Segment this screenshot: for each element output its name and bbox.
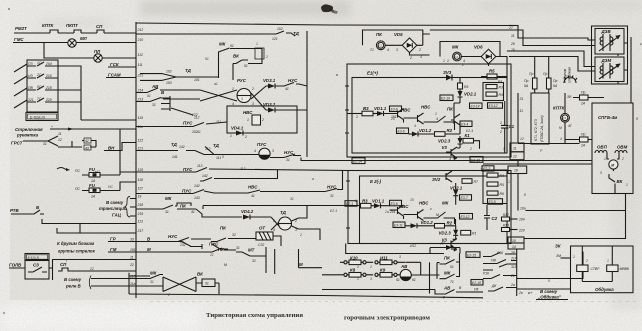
- svg-text:V3: V3: [442, 145, 448, 150]
- svg-text:117: 117: [138, 187, 144, 191]
- transformer box DZV: [592, 26, 628, 84]
- svg-text:Е2-1: Е2-1: [330, 209, 337, 213]
- contact PUS changeover left: [136, 190, 214, 194]
- svg-text:НВС: НВС: [421, 105, 431, 110]
- svg-text:М: М: [147, 247, 151, 252]
- svg-text:Р1К: Р1К: [483, 272, 490, 276]
- svg-text:4: 4: [232, 102, 234, 106]
- svg-text:ТД: ТД: [171, 142, 178, 147]
- svg-text:121: 121: [138, 147, 144, 151]
- unit E1(+) outer box: [347, 64, 511, 157]
- svg-text:Е2-1б: Е2-1б: [472, 281, 481, 285]
- svg-text:К9: К9: [380, 268, 386, 273]
- svg-text:10а: 10а: [520, 207, 526, 211]
- svg-text:ТД: ТД: [293, 31, 300, 36]
- svg-text:Е 2(-): Е 2(-): [370, 179, 382, 184]
- svg-text:R2: R2: [447, 221, 453, 226]
- wire AV row 214: [136, 88, 200, 93]
- svg-text:VD2.1: VD2.1: [464, 92, 477, 97]
- node ladder output: [58, 66, 81, 120]
- svg-text:121: 121: [28, 98, 34, 102]
- svg-text:311: 311: [511, 265, 517, 269]
- svg-text:ТД: ТД: [213, 143, 220, 148]
- svg-text:2-3: 2-3: [561, 116, 566, 120]
- wire long 289: [322, 290, 440, 295]
- label E3-7 (E2): [460, 195, 472, 201]
- relay RUS (polarized): [200, 90, 237, 101]
- relay coil NVS with diode VD4.1: [227, 106, 297, 133]
- wire GOLV: [9, 267, 53, 269]
- unit E2(-) outer box: [348, 171, 511, 244]
- wire riser 115: [119, 129, 121, 172]
- wire to lamp PL: [44, 43, 136, 59]
- resistor R3 (E2): [361, 203, 372, 208]
- bell arc: [564, 77, 576, 83]
- svg-text:3: 3: [252, 102, 254, 106]
- svg-text:19: 19: [138, 195, 142, 199]
- svg-text:4: 4: [414, 124, 416, 128]
- label E-61(I,II) lower: [25, 254, 49, 261]
- svg-text:АВ: АВ: [400, 264, 408, 269]
- svg-text:Е3-12: Е3-12: [461, 215, 470, 219]
- svg-text:НВС: НВС: [243, 110, 253, 115]
- svg-text:R4: R4: [499, 93, 503, 97]
- svg-text:31: 31: [152, 103, 156, 107]
- label E3-11 (E2): [393, 222, 405, 228]
- svg-text:Е2-15: Е2-15: [467, 253, 476, 257]
- contact cluster V M group: [136, 248, 266, 256]
- svg-text:4: 4: [560, 137, 562, 141]
- unit E2 inner box: [360, 176, 508, 244]
- svg-text:м+: м+: [528, 291, 532, 295]
- box MK VD6: [440, 42, 500, 57]
- svg-text:трансляции: трансляции: [99, 206, 127, 211]
- svg-text:2а: 2а: [384, 210, 389, 214]
- contact PKPT: [74, 30, 81, 33]
- svg-text:10: 10: [512, 239, 516, 243]
- svg-text:Е-61(I,II): Е-61(I,II): [30, 115, 46, 119]
- svg-text:11: 11: [58, 132, 62, 136]
- svg-text:К другим блокам: К другим блокам: [57, 241, 95, 246]
- svg-text:ГМ: ГМ: [110, 247, 117, 252]
- svg-text:ГР: ГР: [110, 237, 116, 242]
- svg-text:21: 21: [209, 253, 214, 257]
- svg-text:219: 219: [137, 212, 144, 216]
- hold loop row C with NUS contacts: [214, 171, 343, 194]
- wire RTV V: [11, 210, 44, 214]
- resistor R1 (E2): [461, 230, 471, 235]
- svg-text:ТД: ТД: [280, 210, 287, 215]
- svg-text:ГАЦ: ГАЦ: [112, 213, 122, 218]
- svg-text:R3: R3: [362, 199, 368, 204]
- svg-text:113: 113: [138, 220, 144, 224]
- svg-text:41: 41: [251, 194, 255, 198]
- wire E2-1 long: [203, 206, 346, 210]
- svg-text:51: 51: [147, 94, 151, 98]
- motor M: [609, 160, 618, 169]
- svg-text:МК: МК: [150, 271, 157, 276]
- svg-text:51: 51: [205, 57, 209, 61]
- svg-text:К13: К13: [503, 224, 509, 228]
- svg-text:14: 14: [512, 245, 516, 249]
- wire to VD4.2: [196, 209, 242, 217]
- wire riser to bottom bus: [429, 262, 431, 293]
- wire 10a long: [526, 194, 626, 211]
- svg-text:VD2.3: VD2.3: [438, 139, 451, 144]
- svg-text:ЗК: ЗК: [555, 244, 561, 249]
- svg-text:1: 1: [363, 107, 365, 111]
- wire 11a to relay V: [91, 285, 136, 287]
- wire from VK down: [614, 186, 616, 194]
- svg-text:Пр: Пр: [543, 72, 547, 76]
- svg-text:ПС: ПС: [75, 169, 80, 173]
- svg-text:51: 51: [450, 265, 454, 269]
- svg-text:Тиристорная схема управления: Тиристорная схема управления: [206, 312, 303, 319]
- wire GR: [108, 241, 152, 243]
- capacitor C2: [484, 205, 490, 230]
- ladder row 1: [14, 62, 58, 72]
- wire top second: [430, 30, 595, 46]
- svg-text:143: 143: [194, 196, 200, 200]
- svg-text:Е2-4: Е2-4: [466, 129, 473, 133]
- svg-text:РМ2Т: РМ2Т: [15, 26, 27, 31]
- svg-text:7С: 7С: [37, 97, 42, 101]
- svg-text:218: 218: [137, 203, 144, 207]
- svg-text:41: 41: [197, 130, 201, 134]
- wire cluster to Obduvka: [517, 252, 583, 279]
- svg-text:ПВ: ПВ: [491, 259, 496, 263]
- svg-text:МК: МК: [452, 45, 459, 50]
- label E3-5: [488, 199, 503, 205]
- svg-text:11: 11: [511, 34, 515, 38]
- svg-text:ОВМ: ОВМ: [617, 145, 628, 150]
- wire 220 long: [524, 211, 626, 239]
- svg-text:1: 1: [573, 255, 575, 259]
- diode VD1.1 (E2): [371, 205, 374, 207]
- svg-text:217: 217: [137, 229, 144, 233]
- svg-text:5А: 5А: [553, 84, 558, 88]
- svg-text:2: 2: [621, 157, 624, 161]
- svg-text:1: 1: [230, 134, 232, 138]
- contact VT MT group: [152, 242, 228, 250]
- svg-text:Е3-12: Е3-12: [489, 104, 498, 108]
- svg-text:ВК: ВК: [197, 272, 203, 277]
- svg-text:Е3-9: Е3-9: [391, 202, 398, 206]
- svg-text:3: 3: [399, 255, 401, 259]
- svg-text:1: 1: [256, 42, 258, 46]
- svg-text:11а: 11а: [130, 282, 136, 286]
- label E2-1: [345, 201, 357, 207]
- svg-text:1: 1: [447, 59, 449, 63]
- svg-text:ПК: ПК: [447, 107, 453, 112]
- svg-text:НВС: НВС: [401, 108, 411, 113]
- svg-text:ПК: ПК: [220, 226, 226, 231]
- svg-text:М: М: [611, 164, 614, 168]
- svg-text:20: 20: [390, 117, 395, 121]
- resistor R7 (E2): [462, 179, 472, 184]
- svg-text:113: 113: [197, 164, 203, 168]
- resistor R5: [487, 74, 497, 79]
- svg-text:2: 2: [167, 293, 170, 297]
- resistor R2 (E1): [435, 132, 446, 137]
- svg-text:VD2.3: VD2.3: [439, 231, 452, 236]
- svg-text:31: 31: [290, 197, 294, 201]
- svg-text:204: 204: [45, 62, 52, 66]
- svg-text:120: 120: [138, 168, 144, 172]
- svg-text:АВ: АВ: [443, 286, 451, 291]
- svg-text:R1: R1: [472, 232, 476, 236]
- svg-text:Е3-6: Е3-6: [398, 130, 405, 134]
- svg-text:В схему: В схему: [540, 289, 558, 294]
- svg-text:ПУС: ПУС: [182, 189, 192, 194]
- resistor R4: [487, 173, 498, 177]
- svg-text:R2: R2: [447, 128, 453, 133]
- bottom contact row NUS PUS PK OT: [136, 238, 256, 242]
- svg-text:Пр: Пр: [529, 72, 533, 76]
- svg-text:СТВР: СТВР: [591, 267, 601, 271]
- svg-text:1: 1: [604, 157, 606, 161]
- contact VK bypass: [233, 60, 248, 80]
- label E2-16: [471, 280, 483, 286]
- svg-text:Е3-7: Е3-7: [461, 196, 468, 200]
- misc pin labels: [147, 42, 642, 281]
- svg-text:3: 3: [396, 48, 398, 52]
- wire top bus 21: [136, 23, 595, 40]
- svg-text:ПУС: ПУС: [183, 121, 193, 126]
- svg-text:„Обдувка": „Обдувка": [537, 295, 562, 300]
- svg-text:VD1.2: VD1.2: [421, 220, 434, 225]
- svg-text:ЗV3: ЗV3: [443, 70, 452, 75]
- svg-text:Е3-16: Е3-16: [471, 158, 480, 162]
- svg-text:рукоятка: рукоятка: [16, 133, 39, 138]
- svg-text:4: 4: [254, 149, 256, 153]
- svg-text:31: 31: [286, 158, 290, 162]
- wire right outer: [630, 37, 632, 103]
- svg-text:4: 4: [273, 228, 275, 232]
- svg-text:3: 3: [370, 277, 372, 281]
- svg-text:VD1.2: VD1.2: [419, 128, 432, 133]
- svg-text:Е2-14: Е2-14: [353, 160, 362, 164]
- svg-text:2: 2: [469, 147, 472, 151]
- wire 18 to DZM: [509, 57, 595, 72]
- svg-text:142: 142: [202, 174, 208, 178]
- terminal bus K1 (vertical): [135, 22, 137, 298]
- svg-text:31: 31: [43, 142, 47, 146]
- svg-text:2а: 2а: [510, 283, 515, 287]
- diode VD1.1 (E1): [373, 113, 377, 115]
- svg-text:МТ: МТ: [248, 248, 255, 253]
- svg-text:2: 2: [409, 56, 412, 60]
- fuse Pr 5A right: [547, 78, 552, 89]
- scan residue line: [150, 301, 638, 303]
- wire ZM top: [561, 257, 571, 259]
- resistor R2 (E2): [435, 224, 445, 229]
- svg-text:СЗ: СЗ: [33, 263, 39, 268]
- svg-text:102: 102: [277, 27, 283, 31]
- svg-text:2: 2: [499, 130, 502, 134]
- vertical joining PK MK: [437, 253, 460, 278]
- wire GSAM: [106, 77, 136, 79]
- svg-text:103: 103: [166, 81, 172, 85]
- crossing X wires: [163, 277, 196, 292]
- svg-text:НУС: НУС: [288, 78, 298, 83]
- long bottom bus wire: [129, 294, 483, 298]
- svg-text:МК: МК: [442, 201, 449, 206]
- svg-text:61: 61: [412, 278, 416, 282]
- svg-text:VD4.1: VD4.1: [231, 126, 244, 131]
- svg-text:МК: МК: [219, 42, 226, 47]
- fuse Pr 2A upper: [580, 95, 589, 100]
- svg-text:32: 32: [232, 233, 236, 237]
- resistor R1 (E1): [463, 138, 474, 143]
- label E3-14: [470, 103, 483, 109]
- svg-text:ПУС: ПУС: [183, 167, 193, 172]
- box Obduvka: [571, 246, 634, 293]
- wire TD right to E2 input: [299, 206, 321, 241]
- svg-text:112: 112: [194, 116, 200, 120]
- diode D1: [430, 248, 460, 254]
- box PK VD5: [363, 30, 423, 45]
- contact PUS hold row: [136, 168, 350, 173]
- fuse Pr 2A lower: [580, 137, 589, 142]
- resistor R5: [487, 182, 498, 186]
- svg-text:VD1.1: VD1.1: [374, 106, 387, 111]
- wire E2 input: [322, 205, 360, 207]
- svg-text:КПТК: КПТК: [42, 23, 54, 28]
- svg-text:НУС: НУС: [168, 234, 178, 239]
- svg-text:Е3-14: Е3-14: [471, 105, 480, 109]
- relay coil STVR: [577, 265, 588, 272]
- svg-text:2: 2: [251, 87, 254, 91]
- svg-text:стрелкам: стрелкам: [568, 66, 572, 83]
- svg-text:2в: 2в: [518, 291, 523, 295]
- svg-text:К8: К8: [350, 268, 356, 273]
- contact PUS mid: [136, 122, 227, 127]
- svg-text:5: 5: [222, 155, 224, 159]
- svg-text:212: 212: [137, 28, 144, 32]
- svg-text:VD1.1: VD1.1: [372, 199, 385, 204]
- svg-text:ВК: ВК: [233, 54, 239, 59]
- wire row 212 continuation: [136, 33, 276, 35]
- lamp ML: [68, 39, 76, 47]
- wire E2 bottom to resistor chain: [346, 244, 444, 254]
- svg-text:111: 111: [216, 120, 221, 124]
- svg-text:КПТК: КПТК: [553, 106, 565, 111]
- svg-text:2: 2: [265, 55, 268, 59]
- svg-text:113: 113: [240, 167, 246, 171]
- svg-text:11: 11: [513, 147, 517, 151]
- svg-text:НС: НС: [95, 170, 100, 174]
- svg-text:а1: а1: [214, 82, 218, 86]
- box SPGB-4m: [592, 103, 633, 194]
- speckle marks: [8, 8, 10, 10]
- arrow wire 11: [50, 128, 136, 130]
- svg-text:СПГБ-4м: СПГБ-4м: [598, 115, 618, 120]
- svg-text:2: 2: [479, 168, 482, 172]
- svg-text:VD3.1: VD3.1: [263, 78, 276, 83]
- svg-text:141: 141: [172, 155, 178, 159]
- svg-text:3: 3: [241, 97, 243, 101]
- svg-text:VD6: VD6: [474, 45, 483, 50]
- diode VD1.2 (E2): [405, 225, 411, 227]
- wire vertical 518: [517, 93, 519, 143]
- svg-text:1: 1: [273, 219, 275, 223]
- svg-text:122: 122: [138, 139, 144, 143]
- diode VD1.2 (E1): [409, 133, 413, 135]
- svg-text:В схему: В схему: [106, 200, 124, 205]
- component box small: [255, 48, 264, 59]
- svg-text:2: 2: [244, 135, 247, 139]
- svg-text:4: 4: [449, 157, 451, 161]
- connector B stubs: [161, 96, 170, 111]
- svg-text:М: М: [299, 262, 303, 267]
- svg-text:И12: И12: [410, 244, 416, 248]
- svg-text:1: 1: [508, 180, 510, 184]
- svg-text:Е3-11: Е3-11: [394, 224, 403, 228]
- svg-text:R3: R3: [499, 86, 503, 90]
- svg-text:51: 51: [396, 278, 400, 282]
- svg-text:220: 220: [518, 229, 525, 233]
- terminal block 10 14: [508, 237, 524, 243]
- diode VD3.2: [266, 109, 307, 111]
- svg-text:С1: С1: [509, 124, 515, 129]
- svg-text:ГСАМ: ГСАМ: [108, 73, 121, 78]
- svg-text:3: 3: [295, 228, 297, 232]
- svg-text:Е3-8: Е3-8: [391, 108, 398, 112]
- svg-text:Обдувка: Обдувка: [595, 287, 614, 292]
- svg-text:ДЗВ: ДЗВ: [601, 29, 612, 34]
- svg-text:11: 11: [520, 109, 524, 113]
- junction verticals to lower cluster: [266, 247, 322, 274]
- contact TD pair left: [140, 74, 219, 81]
- terminal ticks on unit edges: [345, 86, 350, 228]
- svg-text:31: 31: [236, 246, 240, 250]
- svg-text:218: 218: [45, 86, 52, 90]
- svg-text:ТД: ТД: [185, 68, 192, 73]
- svg-text:ПК: ПК: [444, 256, 450, 261]
- svg-text:51: 51: [230, 44, 234, 48]
- svg-text:33: 33: [130, 238, 134, 242]
- svg-text:1: 1: [357, 277, 359, 281]
- svg-text:5С: 5С: [37, 85, 42, 89]
- resistor R3 (E1): [362, 111, 373, 116]
- svg-text:26: 26: [510, 42, 515, 46]
- svg-text:1С: 1С: [37, 61, 42, 65]
- svg-text:11: 11: [130, 256, 134, 260]
- wire 11 long: [53, 260, 137, 281]
- svg-text:ЗВ: ЗВ: [567, 95, 572, 99]
- svg-text:142: 142: [179, 145, 185, 149]
- long wire to SPGB motor: [301, 158, 592, 161]
- svg-text:2: 2: [261, 118, 264, 122]
- svg-text:2: 2: [461, 63, 464, 67]
- wire row to SPGB: [518, 143, 580, 145]
- wire TD to PUS machine: [136, 147, 259, 155]
- svg-text:1: 1: [355, 199, 357, 203]
- svg-text:(ПОВС-2А, 3шт): (ПОВС-2А, 3шт): [540, 115, 544, 142]
- svg-text:ЗМ: ЗМ: [556, 254, 561, 258]
- svg-text:210: 210: [137, 38, 144, 42]
- svg-text:2: 2: [294, 219, 297, 223]
- svg-text:2-3: 2-3: [453, 55, 458, 59]
- capacitor C1: [501, 101, 508, 153]
- svg-text:42: 42: [85, 139, 89, 143]
- svg-text:111: 111: [216, 156, 221, 160]
- svg-text:1: 1: [372, 48, 374, 52]
- wire 113 row: [42, 219, 136, 224]
- svg-text:Е-61(I,II): Е-61(I,II): [28, 256, 40, 260]
- svg-text:ОВП: ОВП: [597, 145, 608, 150]
